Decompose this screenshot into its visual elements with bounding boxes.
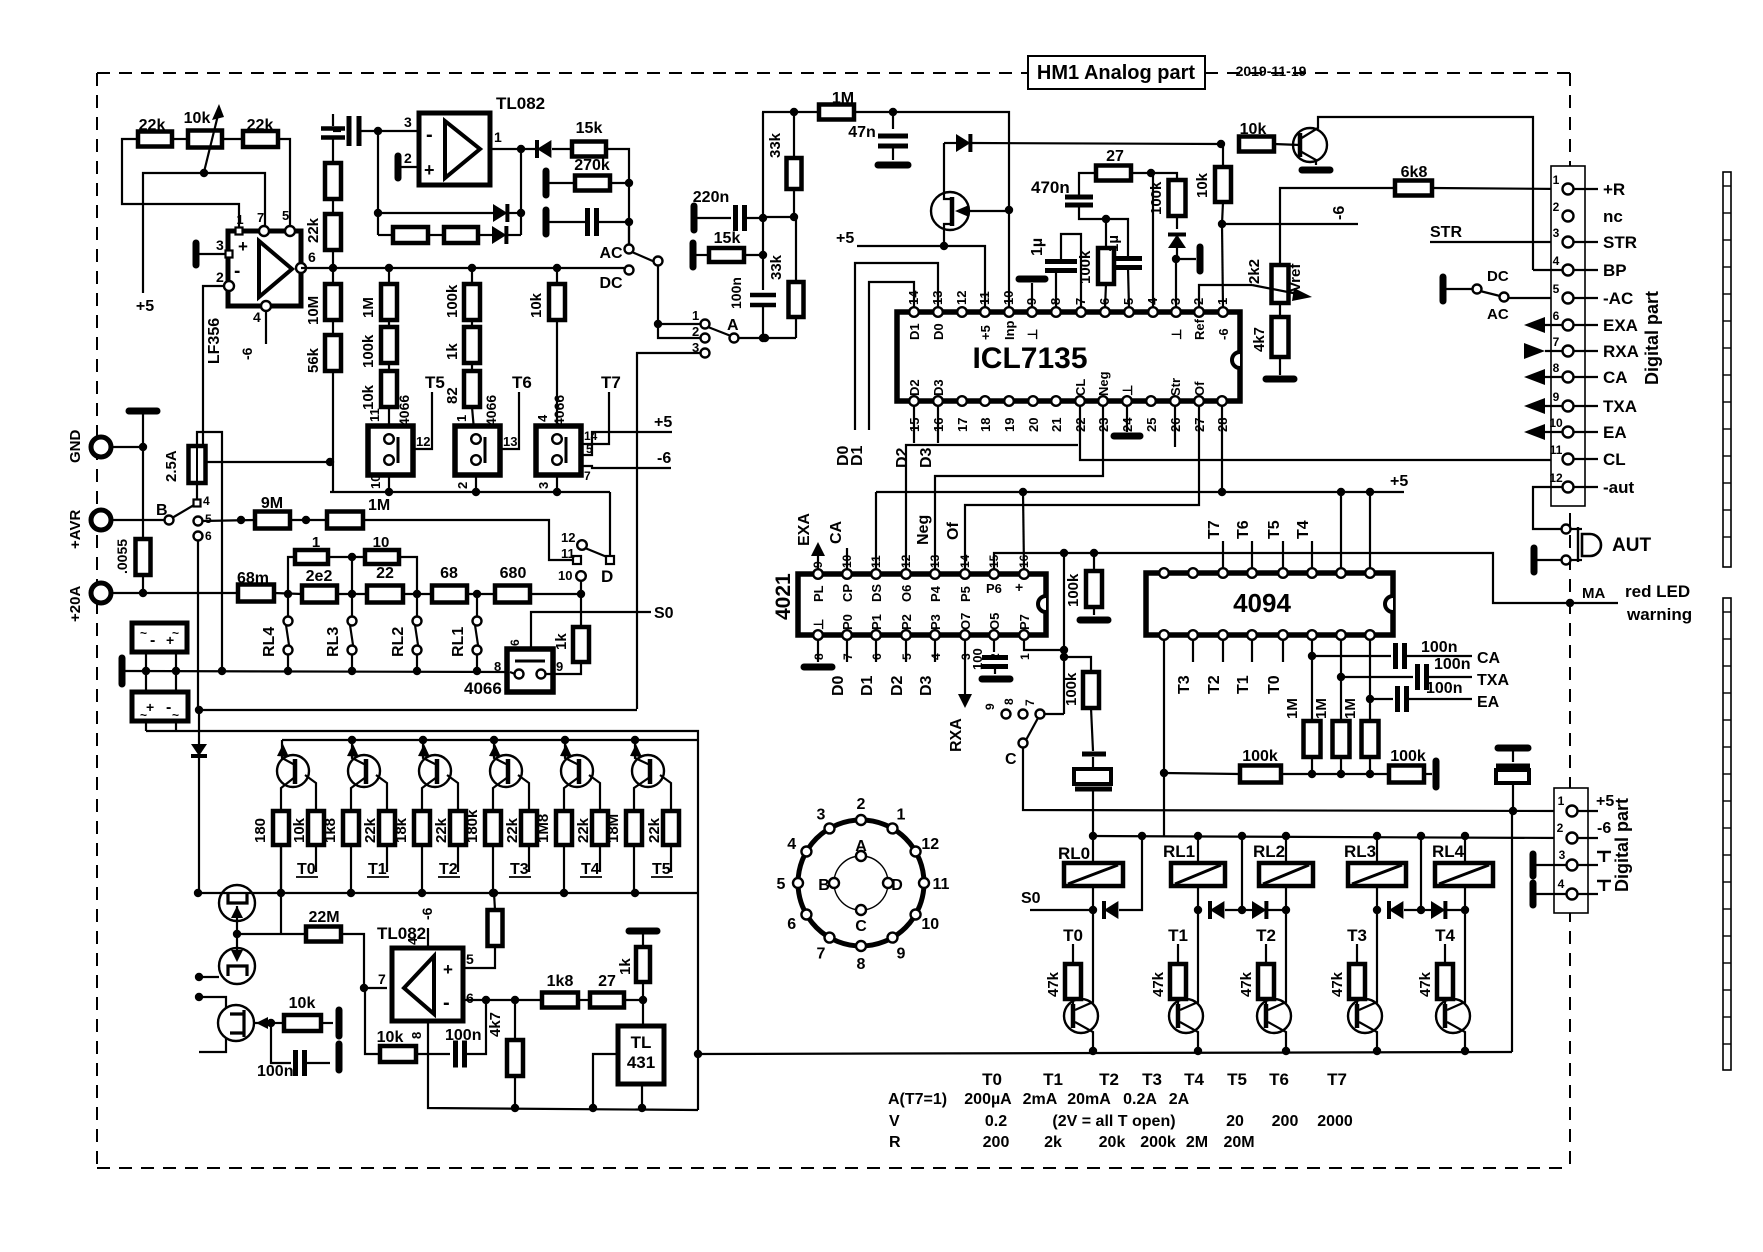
svg-text:8: 8	[409, 1032, 424, 1039]
rotary pole B	[829, 878, 839, 888]
svg-text:TL: TL	[631, 1033, 652, 1052]
wire	[332, 199, 334, 214]
svg-text:EXA: EXA	[796, 513, 813, 546]
svg-text:100k: 100k	[1148, 181, 1165, 215]
wire T5 control stub	[670, 845, 672, 872]
svg-text:3: 3	[216, 237, 224, 253]
wire T6 stub	[1251, 541, 1253, 569]
resistor 1M (top)	[819, 105, 854, 120]
svg-text:2A: 2A	[1169, 1091, 1190, 1108]
svg-text:5: 5	[1553, 282, 1560, 296]
svg-text:100k: 100k	[444, 284, 461, 318]
svg-text:D3: D3	[918, 675, 935, 696]
trimmer 2k2	[1272, 265, 1289, 303]
svg-text:1M: 1M	[368, 497, 390, 514]
svg-text:P4: P4	[928, 585, 943, 602]
transistor Q-T4 (PNP bank)	[561, 755, 593, 787]
wire T2 stub	[1222, 640, 1224, 662]
wire BP bracket to pin4	[1532, 266, 1534, 270]
svg-text:RL3: RL3	[325, 627, 342, 657]
resistor 100k (osc upper)	[1093, 553, 1095, 571]
svg-text:100n: 100n	[1434, 656, 1470, 673]
svg-text:12: 12	[921, 836, 939, 853]
resistor .0055 shunt	[142, 447, 144, 539]
svg-text:T4: T4	[1435, 926, 1455, 945]
svg-text:47k: 47k	[1238, 971, 1255, 997]
svg-text:5: 5	[777, 876, 786, 893]
svg-text:100n: 100n	[1421, 639, 1457, 656]
svg-text:O7: O7	[958, 613, 973, 630]
switch RL2	[413, 617, 422, 626]
collector lead T0	[281, 777, 295, 811]
svg-text:1: 1	[236, 212, 243, 227]
svg-text:RL1: RL1	[1163, 842, 1195, 861]
wire LF356 pin2 feedback	[203, 286, 330, 462]
svg-text:Neg: Neg	[915, 515, 932, 545]
wire contact6 down rail	[197, 540, 199, 710]
resistor 9M	[255, 512, 290, 529]
wire 22M to TL082 pin7	[341, 934, 387, 988]
svg-text:-6: -6	[1331, 206, 1348, 220]
svg-text:-6: -6	[1216, 328, 1231, 340]
resistor 82 (ladder2)	[471, 363, 473, 371]
resistor 100k (ladder1)	[388, 320, 390, 327]
connector pin 5 -AC	[1563, 293, 1574, 304]
switch D contact 11	[573, 556, 581, 564]
svg-text:1M: 1M	[832, 90, 854, 107]
wire D1 stub 4021 pin6	[875, 640, 877, 662]
connector J1 digital part	[1551, 166, 1585, 506]
resistor 1 (parallel)	[288, 557, 295, 594]
resistor 10k (integrator)	[380, 1046, 416, 1062]
wire vertical x=763 top	[762, 112, 764, 290]
svg-text:+: +	[1015, 579, 1023, 595]
decoupling cap at +5 (right)	[1498, 745, 1528, 752]
ground 47n	[878, 162, 908, 169]
connector pin 12 -aut	[1563, 482, 1574, 493]
wire ladder2 to 4066#2	[472, 407, 474, 430]
resistor 18M	[626, 811, 642, 845]
svg-text:3: 3	[1553, 226, 1560, 240]
svg-text:47k: 47k	[1045, 971, 1062, 997]
svg-text:⊥: ⊥	[1169, 329, 1184, 340]
wire T3 control stub	[528, 845, 530, 872]
svg-text:P6: P6	[986, 581, 1002, 596]
wire contact5 to 9M	[202, 520, 255, 521]
svg-text:Neg: Neg	[1096, 371, 1111, 396]
wire -aut to AUT gate	[1533, 487, 1563, 529]
switch RL1	[473, 617, 482, 626]
resistor 27 (out)	[590, 993, 624, 1008]
svg-text:CA: CA	[1477, 650, 1501, 667]
resistor 22k (T1)	[379, 811, 395, 845]
ground ref diode	[1176, 258, 1196, 260]
diode RL1 (D7)	[1210, 901, 1224, 919]
svg-text:7: 7	[584, 469, 591, 483]
wire 4066#3 to +5 rail	[581, 432, 672, 455]
capacitor input TL082	[333, 130, 341, 132]
svg-text:22k: 22k	[305, 217, 322, 243]
svg-text:EA: EA	[1603, 423, 1627, 442]
switch C contact 9	[1002, 710, 1011, 719]
resistor 22 (chain)	[367, 586, 403, 603]
svg-text:7: 7	[378, 971, 386, 987]
svg-text:200: 200	[1272, 1113, 1299, 1130]
svg-text:T6: T6	[512, 373, 532, 392]
svg-text:2000: 2000	[1317, 1113, 1353, 1130]
connector pin 11 CL	[1563, 454, 1574, 465]
wire bank emitter rail	[282, 739, 698, 741]
svg-text:180: 180	[252, 818, 269, 843]
wire contact3 down-left rail	[637, 353, 700, 709]
wire 1M to 47n node	[854, 111, 893, 113]
svg-text:9M: 9M	[261, 495, 283, 512]
switch B contact 4	[196, 483, 198, 499]
svg-text:10k: 10k	[528, 292, 545, 318]
svg-text:T6: T6	[1235, 520, 1252, 539]
svg-text:A(T7=1): A(T7=1)	[888, 1091, 947, 1108]
svg-text:CA: CA	[1603, 368, 1628, 387]
svg-text:0.2A: 0.2A	[1123, 1091, 1157, 1108]
resistor 18k	[414, 811, 430, 845]
svg-text:+: +	[443, 960, 453, 979]
svg-text:18: 18	[978, 418, 993, 432]
svg-text:LF356: LF356	[206, 318, 223, 364]
rotary contact 3	[825, 823, 835, 833]
svg-text:7: 7	[257, 210, 264, 225]
diode RL0 (D6)	[1104, 901, 1118, 919]
node chain/output	[329, 264, 337, 272]
diode feedback D1	[493, 204, 507, 222]
pot 10k wiper arrow	[204, 111, 219, 172]
resistor 10k (ladder3)	[556, 268, 558, 284]
wire 270k right	[610, 182, 629, 184]
svg-text:2k2: 2k2	[1246, 259, 1263, 284]
svg-text:RL2: RL2	[1253, 842, 1285, 861]
switch A contact 3	[701, 349, 710, 358]
svg-text:T2: T2	[1256, 926, 1276, 945]
svg-text:22k: 22k	[362, 817, 379, 843]
svg-text:~: ~	[140, 708, 147, 722]
svg-text:T5: T5	[1266, 520, 1283, 539]
svg-text:2: 2	[1553, 200, 1560, 214]
svg-text:DS: DS	[869, 584, 884, 602]
svg-text:1: 1	[897, 807, 906, 824]
svg-text:4: 4	[203, 494, 210, 508]
wire driver emitter rail	[698, 1052, 1512, 1054]
FET1 drain lead	[280, 845, 282, 934]
wire 22k2 right to LF356 pin5	[278, 139, 290, 228]
svg-text:P0: P0	[840, 614, 855, 630]
rotary contact 5	[793, 878, 803, 888]
svg-text:20: 20	[1226, 1113, 1244, 1130]
svg-text:100k: 100k	[1390, 748, 1426, 765]
rotary contact 9	[888, 933, 898, 943]
wire to ICL pin3	[1175, 259, 1177, 308]
svg-text:6: 6	[1553, 309, 1560, 323]
op-amp U2 TL082 (top)	[419, 113, 490, 185]
svg-text:10k: 10k	[1194, 172, 1211, 198]
wire T4 stub	[1311, 541, 1313, 569]
relay RL2 coil	[1285, 836, 1287, 863]
4021 bottom pin pads	[813, 630, 823, 640]
resistor 15k (input)	[690, 243, 697, 267]
svg-text:T1: T1	[1168, 926, 1188, 945]
switch D lever contact	[606, 556, 614, 564]
wire TL431 anode	[641, 1084, 643, 1108]
svg-text:Str: Str	[1168, 378, 1183, 396]
svg-text:10k: 10k	[377, 1029, 404, 1046]
resistor 22k (right)	[243, 131, 278, 147]
svg-text:RL1: RL1	[450, 627, 467, 657]
wire D3 stub 4021 pin4	[934, 640, 936, 662]
switch A lever	[708, 327, 731, 336]
wire T2 control stub	[457, 845, 459, 872]
battery upper	[132, 623, 187, 652]
wire T0 stub	[1282, 640, 1284, 662]
svg-text:CL: CL	[1073, 379, 1088, 396]
capacitor (input, top of 22k chain)	[332, 114, 334, 126]
svg-text:AC: AC	[1487, 306, 1509, 323]
resistor 22k (left)	[138, 132, 172, 147]
potentiometer 10k	[188, 131, 222, 148]
svg-text:15: 15	[987, 554, 1001, 568]
wire ladder3 to 4066#3	[556, 320, 558, 430]
switch C contact 8	[1019, 710, 1028, 719]
resistor 22k (T5)	[663, 811, 679, 845]
svg-text:4094: 4094	[1233, 588, 1291, 618]
wire feedback lower branch	[378, 234, 393, 236]
transistor Q-T3 (PNP bank)	[490, 755, 522, 787]
node	[517, 209, 525, 217]
svg-text:4k7: 4k7	[1251, 327, 1268, 352]
wire fuse top	[197, 432, 222, 671]
svg-text:A: A	[855, 838, 867, 855]
wire GND terminal	[111, 446, 143, 448]
wire TL082 pin4 -6	[427, 928, 429, 948]
node FET1/FET2	[233, 930, 241, 938]
wire TL082 pin5	[463, 946, 495, 968]
svg-text:100n: 100n	[257, 1063, 293, 1080]
svg-text:P7: P7	[1017, 614, 1032, 630]
svg-text:17: 17	[955, 418, 970, 432]
svg-text:DC: DC	[1487, 268, 1509, 285]
svg-text:4: 4	[253, 309, 261, 325]
capacitor 100n (integrator)	[453, 1041, 458, 1068]
base lead T1	[376, 775, 387, 811]
switch DC contact	[625, 266, 634, 275]
wire 2k2 top to -R line	[1280, 188, 1395, 265]
svg-text:1: 1	[312, 534, 320, 551]
resistor 22M	[306, 927, 341, 942]
capacitor AC coupling	[543, 210, 550, 234]
diode ref (D5)	[1176, 216, 1178, 229]
svg-text:D3: D3	[931, 379, 946, 396]
svg-text:RXA: RXA	[1603, 342, 1639, 361]
svg-text:+: +	[146, 699, 154, 715]
resistor 4k7 (out)	[514, 1000, 516, 1040]
svg-text:33k: 33k	[768, 254, 785, 280]
wire 4066#4 pin8	[510, 672, 515, 674]
transistor Q-T2 (PNP bank)	[419, 755, 451, 787]
resistor 1M8	[556, 811, 572, 845]
wire feedback rail to 4066 switches	[330, 491, 610, 493]
svg-text:12: 12	[561, 530, 575, 545]
resonator / polarized cap	[1082, 752, 1106, 757]
emitter lead T3	[494, 740, 508, 765]
wire 1M node to ICL inp	[893, 112, 1009, 308]
svg-text:-AC: -AC	[1603, 289, 1633, 308]
svg-text:S0: S0	[1021, 890, 1041, 907]
svg-text:-: -	[150, 632, 155, 649]
svg-text:⊥: ⊥	[811, 619, 826, 630]
svg-text:4066: 4066	[396, 395, 412, 426]
svg-text:4: 4	[787, 836, 796, 853]
diode feedback D2	[478, 234, 492, 236]
wire 4066#4 pin6 to S0	[531, 612, 651, 649]
svg-text:47k: 47k	[1329, 971, 1346, 997]
svg-text:6: 6	[787, 916, 796, 933]
connector pin 2 nc	[1563, 211, 1574, 222]
svg-text:18k: 18k	[393, 817, 410, 843]
svg-text:RL4: RL4	[1432, 842, 1465, 861]
svg-text:100: 100	[970, 648, 985, 670]
op-amp U1 LF356	[228, 231, 301, 306]
svg-text:T5: T5	[425, 373, 445, 392]
wire 4066#3 pin3 down	[556, 475, 558, 492]
svg-text:3: 3	[1559, 848, 1566, 862]
capacitor 1u (pins 7-8)	[1055, 272, 1057, 308]
node 27/pin4	[1147, 169, 1155, 177]
svg-text:7: 7	[817, 945, 826, 962]
svg-text:D1: D1	[907, 323, 922, 340]
svg-text:+5: +5	[836, 230, 854, 247]
svg-text:4066: 4066	[483, 395, 499, 426]
svg-text:D2: D2	[907, 379, 922, 396]
base lead T2	[447, 775, 458, 811]
svg-text:⊥: ⊥	[1120, 385, 1135, 396]
wire 4021 pin16 to +5	[1023, 492, 1024, 569]
wire LF356 pin4 to -6	[265, 310, 267, 344]
diode output D3	[537, 140, 551, 158]
svg-text:100k: 100k	[360, 334, 377, 368]
wire collector T3	[1359, 910, 1377, 1010]
diode RL3 (D9)	[1389, 901, 1403, 919]
wire contact11 to 1M range	[363, 520, 573, 560]
svg-text:68m: 68m	[237, 570, 269, 587]
wire battery bottom to emitter rail	[146, 731, 698, 1110]
svg-text:431: 431	[627, 1053, 655, 1072]
svg-text:100k: 100k	[1077, 250, 1094, 284]
svg-text:2k: 2k	[1044, 1134, 1062, 1151]
resistor feedback (unlabeled 1)	[393, 227, 428, 243]
rotary contact 7	[825, 933, 835, 943]
svg-text:~: ~	[172, 708, 179, 722]
switch B lever	[172, 505, 194, 518]
svg-text:10k: 10k	[184, 110, 211, 127]
node feedback 56k bottom	[326, 458, 334, 466]
svg-text:7: 7	[1023, 699, 1037, 706]
svg-text:15k: 15k	[576, 120, 603, 137]
emitter lead T5	[635, 740, 650, 765]
connector pin 7 RXA	[1563, 346, 1574, 357]
svg-text:P3: P3	[928, 614, 943, 630]
resistor 10 (parallel)	[328, 556, 365, 558]
transistor Q-T5 (PNP bank)	[632, 755, 664, 787]
IC U3 ICL7135	[897, 312, 1240, 401]
resistor 1k (ladder2)	[471, 320, 473, 327]
resistor 1M #3	[1369, 699, 1371, 721]
resistor 1k8	[343, 811, 359, 845]
svg-text:47n: 47n	[848, 124, 876, 141]
svg-text:2: 2	[857, 796, 866, 813]
node top divider	[790, 108, 798, 116]
wire STR to pin3	[1430, 241, 1563, 243]
ground TL082 pin2	[395, 156, 402, 178]
node 4066#1 pin10	[385, 488, 393, 496]
svg-text:1: 1	[1558, 794, 1565, 808]
svg-text:B: B	[818, 877, 830, 894]
wire 4021 pin12 O6 to CL	[906, 445, 1078, 569]
resistor 270k	[575, 176, 610, 191]
wire +5 to pot wiper and LF356 pin7	[143, 173, 265, 293]
analog switch 4066 #4	[507, 649, 553, 692]
svg-text:+20A: +20A	[67, 586, 84, 622]
svg-text:100n: 100n	[728, 277, 744, 309]
node 470n bottom	[1102, 215, 1110, 223]
resistor 1M (volt divider)	[327, 512, 363, 529]
wire pin4 up	[1152, 173, 1154, 308]
svg-text:8: 8	[1553, 361, 1560, 375]
resistor 100k (osc lower)	[1083, 672, 1099, 708]
switch DC/AC (right)	[1440, 277, 1447, 301]
node TL082 pin3 input	[374, 127, 382, 135]
rotary contact 1	[888, 823, 898, 833]
svg-text:22k: 22k	[247, 117, 274, 134]
FET3 bottom lead	[199, 1038, 226, 1052]
capacitor 47n	[892, 112, 894, 129]
rotary contact 8	[856, 941, 866, 951]
wire emitter T4	[1447, 1022, 1465, 1051]
svg-text:-: -	[166, 699, 171, 716]
wire collector T2	[1268, 910, 1286, 1010]
wire A node to 33k lower	[765, 337, 796, 339]
svg-text:⊥: ⊥	[1025, 329, 1040, 340]
capacitor 100n CA	[1393, 643, 1398, 669]
resistor 33k lower	[795, 217, 797, 282]
svg-text:1: 1	[1553, 173, 1560, 187]
FET drain lead up to diode line	[944, 143, 952, 199]
switch AC contact	[628, 222, 630, 244]
node 10k top	[1217, 140, 1225, 148]
rotary contact 11	[919, 878, 929, 888]
wire bottom reference rail	[428, 1021, 698, 1110]
svg-text:.0055: .0055	[114, 539, 130, 574]
FET3 top lead	[199, 997, 226, 1008]
wire MA / red LED line	[994, 553, 1618, 603]
svg-text:GND: GND	[67, 430, 84, 464]
arrow EXA into 4021 pin9	[817, 556, 819, 569]
svg-text:O5: O5	[987, 613, 1002, 630]
base lead T3	[518, 775, 529, 811]
svg-text:3: 3	[536, 482, 551, 489]
connector pin 9 TXA	[1563, 401, 1574, 412]
svg-text:5: 5	[466, 951, 474, 967]
wire 4066#2 pin2 down	[475, 475, 477, 492]
IC U4 4021	[798, 574, 1046, 635]
svg-text:T3: T3	[1142, 1070, 1162, 1089]
svg-text:STR: STR	[1430, 224, 1462, 241]
